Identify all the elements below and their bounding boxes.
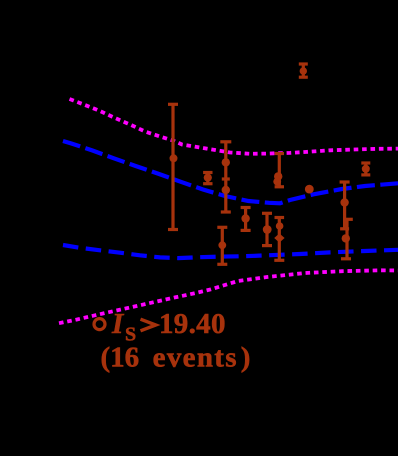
svg-text:19.40: 19.40 bbox=[159, 308, 226, 340]
data point P5 bbox=[217, 227, 227, 264]
data points P-lower on x=279 bar with diamond bbox=[274, 218, 284, 261]
legend open circle symbol bbox=[94, 319, 105, 330]
upper blue dashed model curve bbox=[63, 141, 398, 203]
lower blue dashed model curve bbox=[63, 245, 398, 258]
data points P4a/P4b double bar bbox=[220, 142, 231, 212]
data point P9 bbox=[340, 182, 350, 229]
data points P-upper on x=279 bar bbox=[273, 154, 284, 187]
lower magenta dotted model curve bbox=[59, 270, 398, 323]
svg-text:(16events): (16events) bbox=[101, 342, 251, 374]
lone data point bbox=[305, 185, 314, 194]
data point P2 tall bar bbox=[168, 104, 178, 229]
svg-text:I: I bbox=[111, 308, 125, 340]
upper magenta dotted model curve bbox=[70, 99, 398, 154]
data point P8 bbox=[361, 163, 370, 175]
data point P7 bbox=[262, 213, 272, 245]
data point P1 top bbox=[299, 64, 308, 77]
data point P3 bbox=[203, 173, 212, 184]
data point P6 bbox=[241, 208, 251, 231]
data point P10 bbox=[341, 219, 353, 258]
